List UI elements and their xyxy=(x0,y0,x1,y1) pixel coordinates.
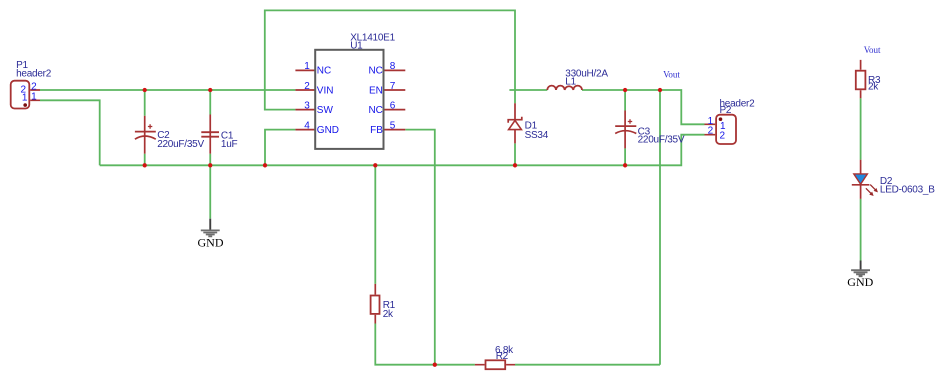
svg-text:EN: EN xyxy=(369,85,383,96)
resistor R2 xyxy=(475,360,515,369)
wire D1 top xyxy=(514,90,516,103)
wire C2 top xyxy=(144,90,146,116)
junction C1 bottom xyxy=(208,163,212,167)
svg-text:GND: GND xyxy=(317,125,339,136)
svg-text:2k: 2k xyxy=(868,82,879,93)
svg-text:NC: NC xyxy=(368,66,382,77)
junction R1 top xyxy=(373,163,377,167)
diode D1 SS34 xyxy=(508,103,522,143)
inductor L1 xyxy=(547,86,582,90)
capacitor C3 xyxy=(615,111,636,149)
junction C3 top xyxy=(623,88,627,92)
wire Vout vertical to divider bottom xyxy=(515,90,660,365)
wire SW node stub xyxy=(509,89,547,91)
wire GND rail to P2 pin2 xyxy=(100,135,705,166)
wire C1 bottom xyxy=(209,154,211,166)
wire to ground symbol xyxy=(209,165,211,218)
wire Vout rail L1 to P2 pin1 xyxy=(582,90,705,124)
svg-text:1: 1 xyxy=(22,93,28,104)
wire U1 GND pin to rail xyxy=(265,130,295,166)
wire C1 top xyxy=(209,90,211,115)
svg-text:SS34: SS34 xyxy=(525,130,549,141)
junction U1 GND xyxy=(263,163,267,167)
svg-text:R2: R2 xyxy=(496,351,509,362)
connector P2 header2 xyxy=(705,98,756,144)
svg-text:2: 2 xyxy=(708,125,714,136)
svg-text:7: 7 xyxy=(390,81,396,92)
svg-text:LED-0603_B: LED-0603_B xyxy=(880,184,935,195)
wire VIN rail from P1 pin2 to U1 VIN xyxy=(40,89,295,91)
wire P1 pin1 down to GND rail xyxy=(40,100,100,165)
svg-text:P2: P2 xyxy=(720,105,732,116)
svg-text:2: 2 xyxy=(304,81,310,92)
wire C2 bottom xyxy=(144,154,146,166)
junction C2 top xyxy=(143,88,147,92)
wire D1 bottom xyxy=(514,143,516,165)
wire FB to divider node xyxy=(405,130,435,365)
LED D2 xyxy=(852,160,878,199)
svg-text:NC: NC xyxy=(317,66,331,77)
capacitor C2 xyxy=(135,116,156,154)
wire C3 bottom xyxy=(624,148,626,165)
svg-text:FB: FB xyxy=(370,125,383,136)
wire R1 top xyxy=(374,165,376,284)
svg-text:NC: NC xyxy=(368,105,382,116)
svg-text:VIN: VIN xyxy=(317,85,334,96)
svg-text:2: 2 xyxy=(720,130,726,141)
junction Vout tap xyxy=(658,88,662,92)
wire R1 bottom to R2 xyxy=(375,324,475,365)
svg-text:4: 4 xyxy=(304,120,310,131)
ground right xyxy=(847,261,873,290)
svg-text:GND: GND xyxy=(198,235,224,249)
junction C3 bottom xyxy=(623,163,627,167)
connector P1 header2 xyxy=(11,60,52,109)
svg-text:1uF: 1uF xyxy=(221,139,238,150)
svg-text:220uF/35V: 220uF/35V xyxy=(638,134,685,145)
svg-text:1: 1 xyxy=(31,91,37,102)
wire SW top loop xyxy=(265,10,515,109)
svg-text:header2: header2 xyxy=(16,69,52,80)
junction FB divider node xyxy=(433,363,437,367)
junction C1 top xyxy=(208,88,212,92)
svg-text:GND: GND xyxy=(847,275,873,289)
svg-text:6: 6 xyxy=(390,100,396,111)
junction C2 bottom xyxy=(143,163,147,167)
svg-text:L1: L1 xyxy=(565,76,576,87)
junction D1 bottom xyxy=(513,163,517,167)
svg-text:220uF/35V: 220uF/35V xyxy=(157,139,204,150)
svg-text:Vout: Vout xyxy=(864,45,881,55)
svg-text:U1: U1 xyxy=(350,41,363,52)
IC U1 XL1410E1 xyxy=(295,32,405,148)
ground xyxy=(198,219,224,250)
svg-text:Vout: Vout xyxy=(663,69,680,79)
svg-text:SW: SW xyxy=(317,105,334,116)
svg-text:1: 1 xyxy=(304,61,310,72)
svg-text:3: 3 xyxy=(304,100,310,111)
svg-text:8: 8 xyxy=(390,61,396,72)
svg-text:2k: 2k xyxy=(383,309,394,320)
svg-text:5: 5 xyxy=(390,120,396,131)
capacitor C1 xyxy=(201,115,219,154)
wire C3 top xyxy=(624,90,626,111)
resistor R1 xyxy=(371,284,380,324)
wire D2 to ground xyxy=(860,199,862,261)
wire R3 to D2 xyxy=(860,98,862,160)
resistor R3 xyxy=(856,60,866,98)
